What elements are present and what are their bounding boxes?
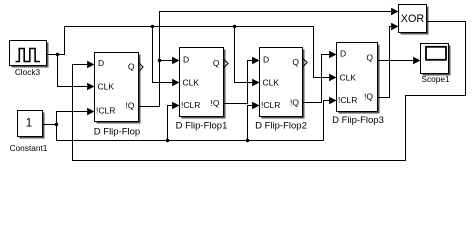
wire clock to U4 CLK (314, 27, 331, 78)
svg-text:!CLR: !CLR (96, 106, 115, 116)
junction constant rail at U3 (246, 139, 249, 142)
arrowhead into U3 CLK (252, 79, 259, 87)
svg-text:!CLR: !CLR (338, 95, 357, 105)
wire XOR output feedback to U1 D (73, 22, 466, 161)
junction node A (158, 59, 161, 62)
flip-flop U3 D Flip-Flop2 (260, 48, 305, 119)
arrowhead into U3 D (252, 57, 259, 65)
svg-text:!Q: !Q (290, 98, 299, 108)
svg-text:CLK: CLK (263, 78, 280, 88)
wire Constant1 output (43, 124, 57, 126)
arrowhead into U4 D (329, 51, 336, 59)
arrowhead into U2 D (172, 57, 179, 65)
svg-text:Q: Q (292, 57, 299, 67)
wire clock rail riser (58, 27, 65, 55)
wire clock to U1 CLK (58, 55, 89, 87)
arrowhead into U4 CLK (329, 74, 336, 82)
arrowhead into U3 !CLR (252, 102, 259, 110)
svg-text:Scope1: Scope1 (421, 74, 450, 84)
svg-text:D Flip-Flop1: D Flip-Flop1 (176, 121, 228, 132)
svg-text:Q: Q (366, 53, 373, 63)
svg-text:Q: Q (213, 58, 220, 68)
arrowhead into U1 D (87, 61, 94, 69)
svg-text:D: D (340, 49, 346, 59)
svg-text:!Q: !Q (364, 92, 373, 102)
wire U4 !Q to XOR input 2 (378, 27, 393, 98)
junction constant node (55, 123, 58, 126)
unconnected output port Q of U2 (224, 59, 229, 68)
wire constant to U1 !CLR (57, 112, 89, 125)
arrowhead into U1 !CLR (87, 108, 94, 116)
svg-text:!CLR: !CLR (261, 100, 280, 110)
arrowhead into XOR input 2 (391, 23, 398, 31)
wire constant to U2 !CLR (168, 106, 174, 141)
wire clock rail (65, 26, 314, 28)
flip-flop U4 D Flip-Flop3 (337, 43, 380, 114)
wire constant to U3 !CLR (248, 106, 254, 141)
svg-text:Constant1: Constant1 (10, 143, 48, 153)
arrowhead into Scope1 (413, 57, 420, 65)
svg-text:D: D (98, 58, 104, 68)
svg-text:D: D (263, 55, 269, 65)
svg-text:1: 1 (26, 118, 32, 130)
wire node A to U2 D (160, 60, 174, 62)
arrowhead into U2 CLK (172, 79, 179, 87)
wire Clock3 output (47, 54, 58, 56)
wire U1 !Q to node A (139, 61, 160, 107)
wire clock to U2 CLK (153, 27, 174, 83)
arrowhead into U1 CLK (87, 83, 94, 91)
svg-text:Clock3: Clock3 (15, 67, 41, 77)
flip-flop U2 D Flip-Flop1 (180, 48, 226, 119)
source block Clock3 (10, 41, 49, 68)
constant block Constant1 (18, 111, 45, 139)
arrowhead into XOR input 1 (391, 8, 398, 16)
arrowhead into U2 !CLR (172, 102, 179, 110)
svg-text:CLK: CLK (98, 82, 115, 92)
unconnected output port Q of U1 (139, 63, 144, 72)
svg-text:Q: Q (128, 62, 135, 72)
svg-text:XOR: XOR (401, 13, 425, 25)
svg-text:D Flip-Flop: D Flip-Flop (94, 127, 140, 138)
wire node A to XOR input 1 (160, 12, 393, 61)
wire constant to U4 !CLR (324, 101, 331, 141)
junction clock node (56, 53, 59, 56)
svg-text:D: D (183, 55, 189, 65)
wire clock to U3 CLK (235, 27, 254, 83)
wire U4 Q to Scope1 (378, 60, 415, 62)
sink block Scope1 (421, 44, 451, 76)
svg-text:!Q: !Q (126, 101, 135, 111)
svg-text:!Q: !Q (211, 98, 220, 108)
wire U2 !Q to U3 D (224, 61, 254, 104)
svg-text:CLK: CLK (340, 73, 357, 83)
junction constant rail at U2 (166, 139, 169, 142)
unconnected output port Q of U3 (303, 58, 308, 67)
svg-text:CLK: CLK (183, 78, 200, 88)
junction clock rail at U2 (151, 25, 154, 28)
svg-text:D Flip-Flop2: D Flip-Flop2 (255, 121, 307, 132)
wire U3 !Q to U4 D (303, 55, 331, 103)
arrowhead into U4 !CLR (329, 97, 336, 105)
svg-text:!CLR: !CLR (181, 100, 200, 110)
wire constant rail (57, 125, 324, 141)
flip-flop U1 D Flip-Flop (95, 53, 141, 124)
svg-text:D Flip-Flop3: D Flip-Flop3 (332, 115, 384, 126)
logic block XOR (399, 5, 429, 35)
junction clock rail at U3 (233, 25, 236, 28)
